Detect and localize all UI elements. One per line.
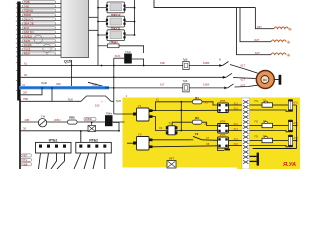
svg-text:Х6: Х6: [205, 101, 209, 105]
svg-text:61Б: 61Б: [160, 61, 165, 65]
wires blocks to strip: [218, 105, 243, 151]
resistor R2: [192, 116, 208, 125]
svg-text:П1: П1: [255, 99, 259, 103]
wire W7 (30) with lamp: [21, 122, 133, 144]
fuse box ПчК (black): [114, 50, 145, 67]
highlighted yellow zone: [123, 98, 301, 168]
block ИТБ1: [36, 138, 72, 169]
svg-text:61Т: 61Т: [241, 63, 246, 67]
strip bottom terminals: [250, 153, 260, 166]
svg-text:ИПб: ИПб: [220, 133, 226, 137]
svg-text:Х13: Х13: [234, 128, 239, 131]
relay K1: [97, 2, 135, 13]
svg-text:R2: R2: [195, 116, 199, 120]
sensor УКТ: [167, 157, 176, 168]
svg-text:ИПб: ИПб: [220, 119, 226, 123]
connector strip: [242, 98, 250, 169]
star terminals: [286, 27, 292, 59]
wire W6 (20Б) with ГН, R80, ПчБ: [21, 112, 125, 132]
left rail: [19, 99, 21, 169]
wire W4 (20Г): [21, 88, 42, 95]
relay K3: [97, 26, 135, 40]
svg-text:Х12: Х12: [234, 107, 239, 110]
svg-text:63Т: 63Т: [241, 84, 246, 88]
svg-text:63Т: 63Т: [257, 25, 262, 29]
svg-text:02: 02: [24, 73, 27, 77]
svg-text:R1: R1: [195, 96, 199, 100]
svg-text:ТрБ: ТрБ: [183, 79, 188, 83]
svg-text:✳: ✳: [286, 40, 290, 46]
row 3: ballast resistor С3 and glow lamp НП3: [250, 135, 299, 147]
svg-text:Т2: Т2: [195, 132, 199, 136]
block У1: [133, 104, 153, 121]
svg-text:61Т: 61Т: [255, 51, 260, 55]
block ИП2: [218, 119, 229, 133]
svg-text:Q15: Q15: [64, 60, 71, 64]
svg-text:МК: МК: [263, 78, 267, 82]
connector bar: [16, 2, 21, 101]
Q15 ignition switch: [72, 60, 104, 87]
connector tags ХВГ/ХТд/ХВБ: [21, 154, 32, 167]
svg-text:Х14: Х14: [234, 138, 239, 141]
svg-text:ПЖч: ПЖч: [106, 112, 113, 116]
svg-text:У2: У2: [138, 133, 142, 137]
svg-text:нП3: нП3: [293, 137, 298, 140]
svg-text:ИТБ1: ИТБ1: [49, 138, 58, 142]
svg-text:01: 01: [22, 83, 25, 87]
svg-text:20БЧ: 20БЧ: [54, 118, 61, 122]
wire W2 (02): [21, 73, 226, 78]
ignition coil (donut МК): [256, 71, 281, 89]
svg-text:✳: ✳: [288, 27, 292, 33]
svg-text:510: 510: [95, 104, 100, 108]
relay K2: [97, 13, 135, 27]
svg-text:61: 61: [24, 61, 27, 65]
svg-text:ИПб: ИПб: [220, 99, 226, 103]
pin label tags (red wire codes): [23, 0, 56, 56]
svg-text:61Бб: 61Бб: [203, 83, 210, 87]
svg-text:ИТБ2: ИТБ2: [89, 138, 98, 142]
switch T2: [190, 132, 210, 146]
relay rails: [89, 0, 135, 66]
svg-text:Тр8: Тр8: [116, 99, 121, 103]
svg-text:Х8: Х8: [206, 142, 210, 146]
svg-text:30: 30: [23, 127, 26, 131]
block У2: [133, 133, 153, 150]
svg-text:61Г: 61Г: [160, 83, 165, 87]
svg-text:ХВГ: ХВГ: [22, 154, 27, 158]
block ИП1: [218, 99, 229, 113]
fuse ПЖД4: [98, 40, 144, 53]
vertical into yellow: [111, 58, 133, 114]
resistor R1: [192, 96, 208, 105]
svg-text:62Т: 62Т: [241, 77, 246, 81]
svg-text:20Д: 20Д: [92, 82, 97, 86]
row 1: ballast resistor С1 and glow lamp НП1: [250, 99, 299, 111]
svg-text:Т1: Т1: [168, 122, 172, 126]
svg-text:Тр5: Тр5: [68, 98, 73, 102]
wire W5 (75В): [21, 88, 122, 108]
svg-text:Я.УА: Я.УА: [282, 162, 296, 168]
yellow zone wires (left half): [153, 102, 218, 147]
block ИТБ2: [74, 130, 111, 169]
pin wires with label tags: [21, 4, 61, 56]
svg-text:4БЖ: 4БЖ: [24, 52, 31, 56]
svg-text:ТрЖ: ТрЖ: [41, 81, 47, 85]
row 2: ballast resistor С2 and glow lamp НП2: [250, 120, 299, 132]
svg-text:ГН: ГН: [41, 115, 45, 119]
svg-text:Х15: Х15: [234, 143, 239, 146]
svg-text:61Вб: 61Вб: [203, 61, 210, 65]
svg-text:ХТд: ХТд: [22, 158, 27, 162]
connector circles on pin rows: [34, 33, 51, 55]
svg-text:ТрБ: ТрБ: [183, 58, 188, 62]
svg-text:ПчК: ПчК: [125, 50, 131, 54]
right rail: [253, 105, 297, 149]
glow plug coil EK2: [271, 40, 286, 42]
svg-text:УКТ: УКТ: [169, 157, 175, 161]
svg-text:20БЖ: 20БЖ: [85, 117, 93, 121]
svg-text:ХВБ: ХВБ: [22, 162, 27, 166]
glow plug coil EK1: [271, 53, 286, 55]
svg-text:62Т: 62Т: [255, 38, 260, 42]
terminal dash below ИП3: [225, 149, 231, 151]
svg-text:П2: П2: [255, 120, 259, 124]
svg-text:20Б: 20Б: [25, 118, 30, 122]
svg-text:Х3: Х3: [159, 126, 163, 130]
svg-text:4(Б): 4(Б): [56, 82, 61, 86]
glow plug coils (top right): [271, 27, 288, 55]
coil labels: [255, 25, 263, 55]
transistor T1: [166, 122, 178, 135]
svg-text:Х7: Х7: [206, 136, 210, 140]
glow plug coil EK3: [274, 27, 288, 29]
wire W3 highlighted blue: [19, 79, 227, 92]
svg-text:П3: П3: [255, 135, 259, 139]
svg-text:нП2: нП2: [293, 122, 298, 125]
svg-text:75В: 75В: [23, 97, 28, 101]
svg-text:R80: R80: [69, 116, 75, 120]
wire W1 (61): [21, 58, 223, 70]
svg-text:Х1б1: Х1б1: [114, 54, 121, 58]
svg-text:20Г: 20Г: [23, 91, 28, 95]
svg-text:К: К: [219, 58, 221, 62]
block ИП3: [218, 133, 229, 148]
svg-text:нП1: нП1: [293, 102, 298, 105]
svg-text:Х13: Х13: [234, 102, 239, 105]
svg-text:Х12: Х12: [234, 123, 239, 126]
svg-text:✳: ✳: [286, 53, 290, 59]
